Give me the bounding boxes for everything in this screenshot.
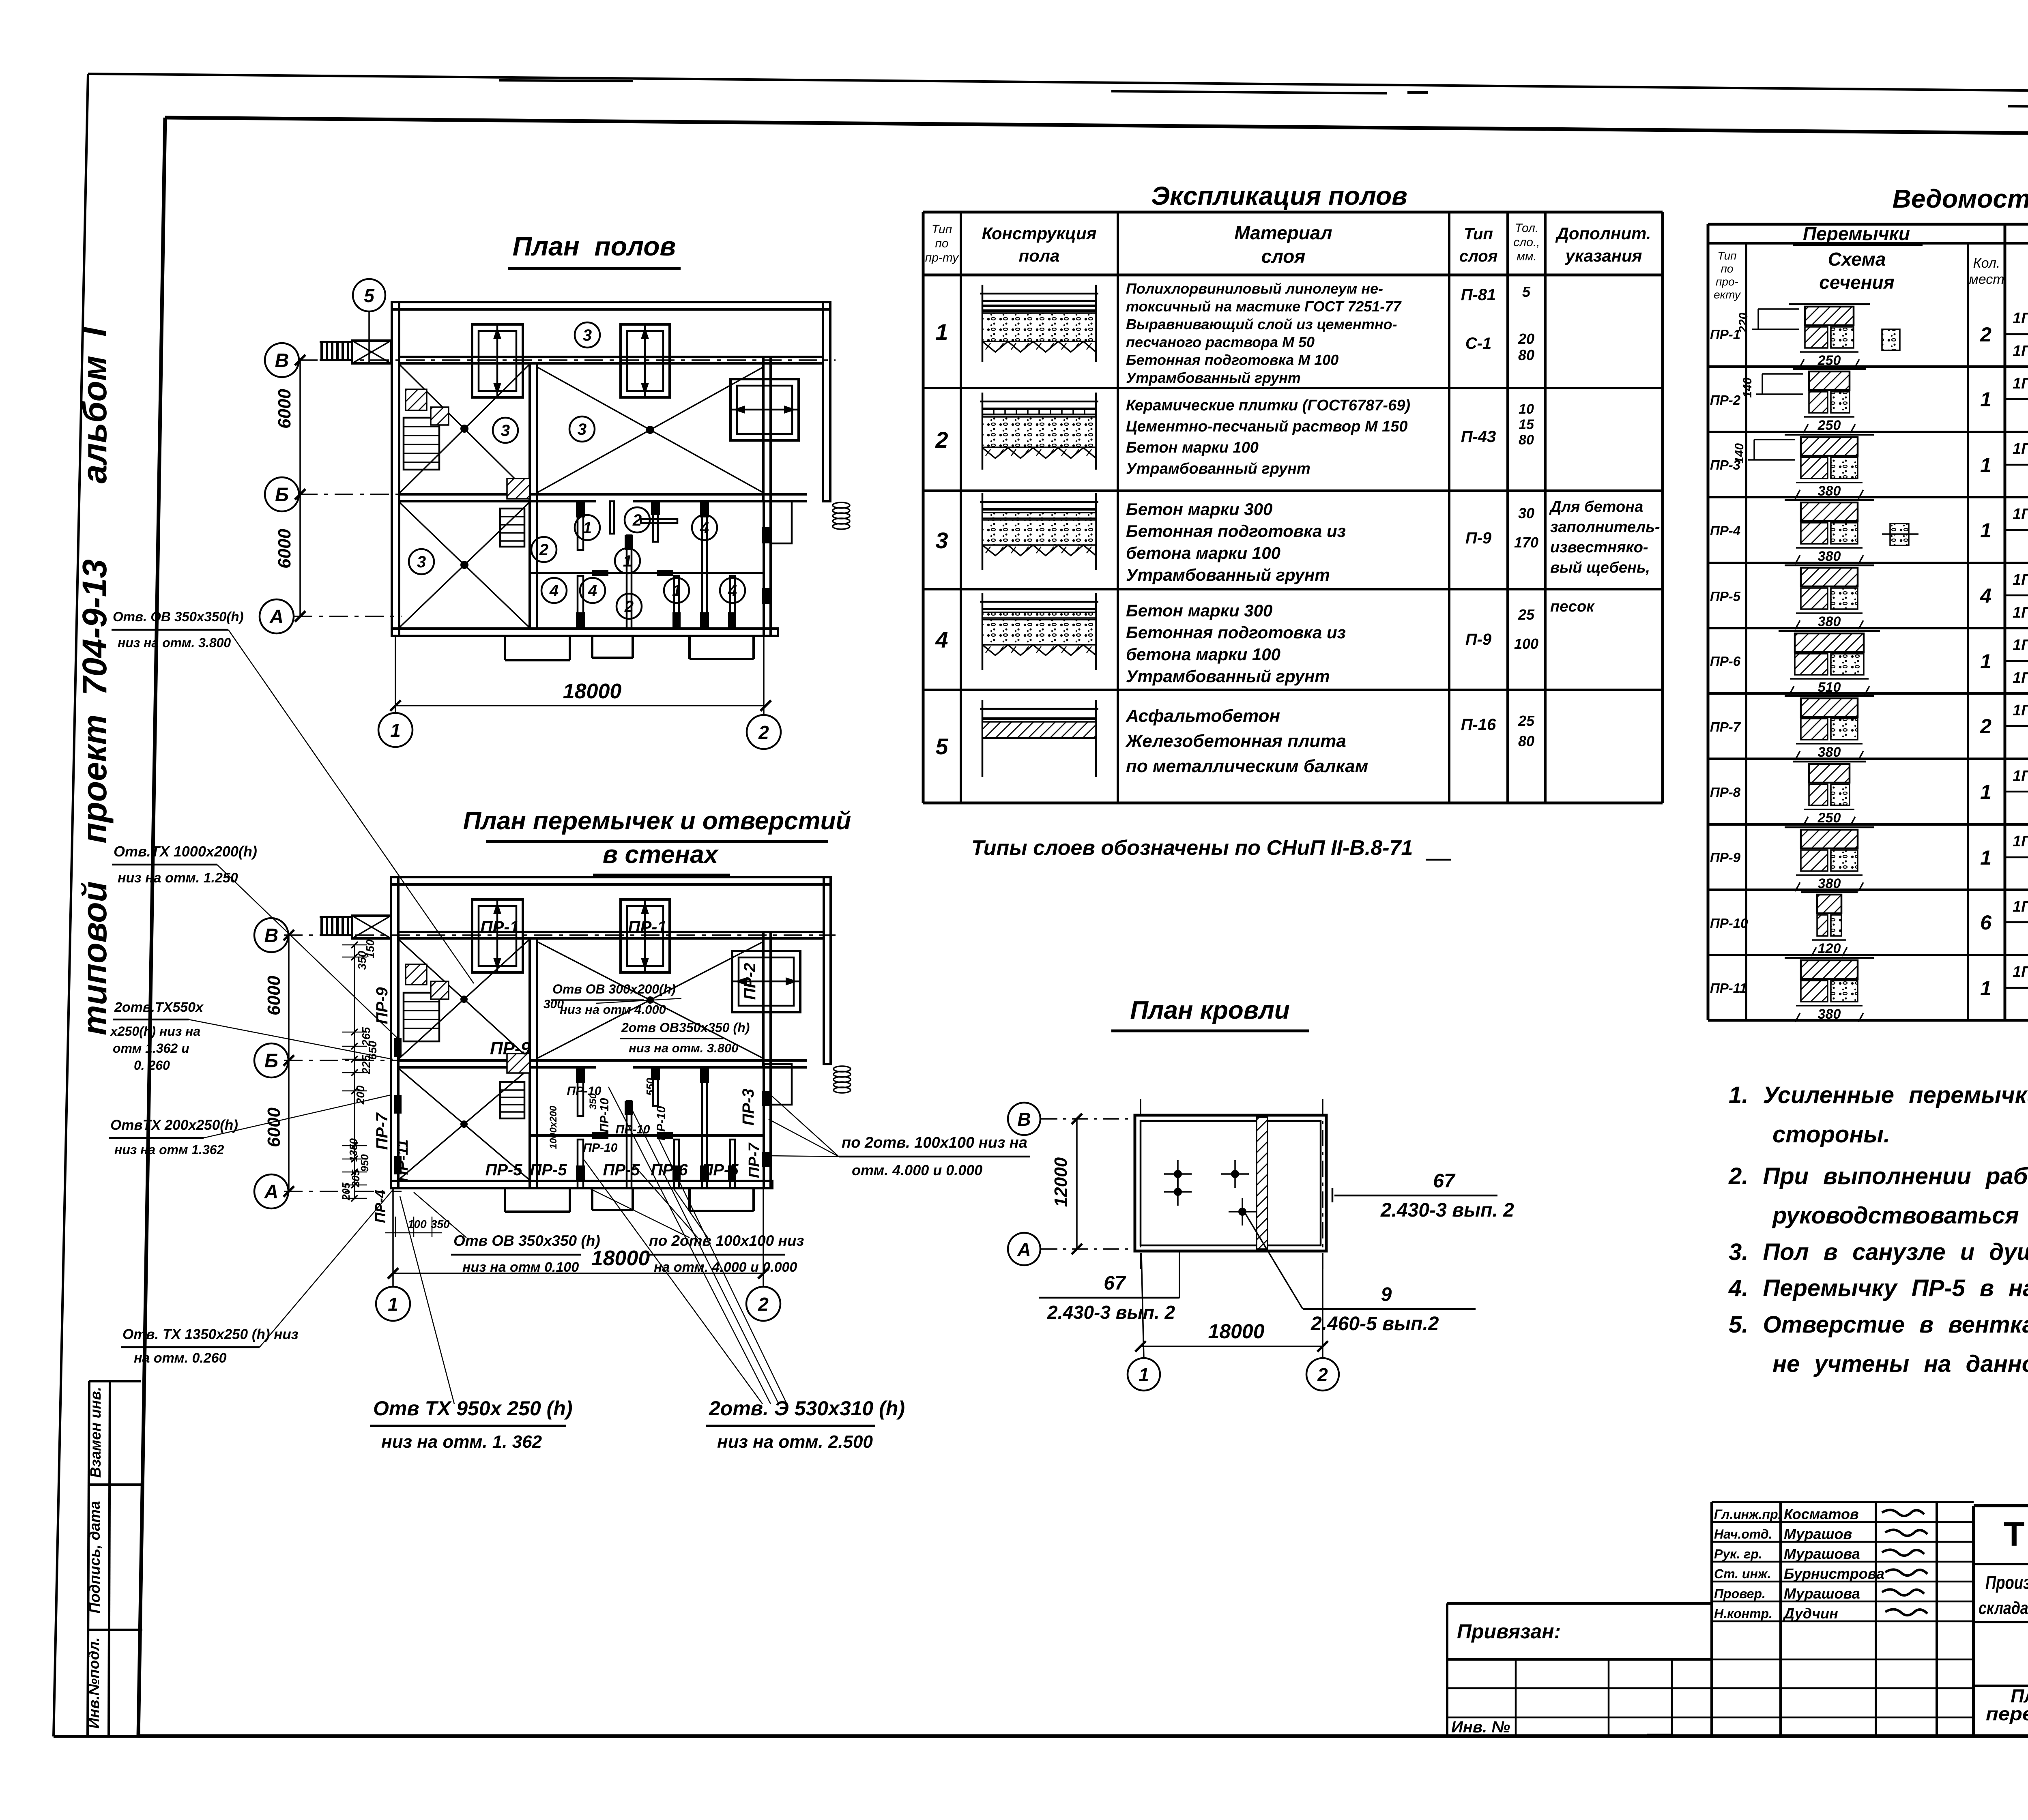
leader from ОВ300 to point bbox=[596, 998, 681, 1003]
svg-text:пр-ту: пр-ту bbox=[925, 251, 960, 264]
svg-text:Рук. гр.: Рук. гр. bbox=[1714, 1547, 1762, 1561]
svg-text:ПР-8: ПР-8 bbox=[1710, 785, 1741, 800]
svg-text:бетона марки 100: бетона марки 100 bbox=[1126, 543, 1280, 562]
svg-text:250: 250 bbox=[1817, 353, 1841, 368]
svg-text:67: 67 bbox=[1104, 1273, 1126, 1294]
lintel schema drawing ПР-8 bbox=[1793, 761, 1866, 763]
svg-text:екту: екту bbox=[1714, 288, 1741, 301]
svg-text:указания: указания bbox=[1564, 246, 1642, 265]
svg-text:Бетон марки 300: Бетон марки 300 bbox=[1126, 500, 1272, 519]
svg-text:ПР-4: ПР-4 bbox=[372, 1190, 389, 1223]
lintel schema drawing ПР-4 bbox=[1785, 499, 1874, 501]
svg-text:Отв.ТХ 1000х200(h): Отв.ТХ 1000х200(h) bbox=[114, 843, 257, 860]
svg-text:известняко-: известняко- bbox=[1550, 539, 1648, 556]
svg-text:низ на отм. 1. 362: низ на отм. 1. 362 bbox=[381, 1432, 542, 1452]
svg-text:380: 380 bbox=[1818, 876, 1841, 891]
svg-text:ПР-2: ПР-2 bbox=[741, 963, 759, 1000]
svg-text:Керамические плитки (ГОСТ6787-: Керамические плитки (ГОСТ6787-69) bbox=[1126, 397, 1410, 414]
title block main frame bbox=[1974, 1504, 2028, 1507]
svg-text:380: 380 bbox=[1818, 549, 1841, 564]
svg-text:1: 1 bbox=[935, 319, 948, 345]
floor construction sketch row bbox=[980, 601, 1098, 603]
svg-text:2: 2 bbox=[935, 427, 948, 453]
svg-text:18000: 18000 bbox=[1208, 1320, 1264, 1343]
svg-text:А: А bbox=[1017, 1239, 1031, 1260]
leaders from по 2отв bottom bbox=[589, 1188, 690, 1238]
lintel vertical dimension 6000 6000 bbox=[288, 935, 290, 1191]
svg-text:Тип: Тип bbox=[1464, 225, 1493, 243]
lintel plan diagonals BL bbox=[398, 1068, 530, 1180]
svg-text:1: 1 bbox=[1980, 846, 1991, 869]
svg-text:C-1: C-1 bbox=[1465, 335, 1491, 352]
leader from ТХ1000 bbox=[217, 865, 397, 1038]
svg-text:4: 4 bbox=[588, 582, 597, 600]
svg-text:5: 5 bbox=[364, 285, 375, 306]
lintel wall on axis В bbox=[398, 932, 824, 938]
axis circle А bbox=[260, 599, 294, 633]
svg-text:Кол.: Кол. bbox=[1973, 255, 2000, 271]
svg-text:Н.контр.: Н.контр. bbox=[1714, 1606, 1772, 1621]
svg-text:низ на отм 1.362: низ на отм 1.362 bbox=[114, 1142, 224, 1157]
svg-text:План кровли: План кровли bbox=[1130, 996, 1289, 1024]
outer sheet border bbox=[88, 74, 2028, 94]
svg-text:18000: 18000 bbox=[563, 680, 622, 703]
axis circle 5 bbox=[353, 279, 385, 311]
svg-text:1: 1 bbox=[1980, 519, 1991, 542]
lintel axis circle А bbox=[254, 1174, 288, 1208]
svg-text:ПР-5: ПР-5 bbox=[1710, 589, 1741, 604]
lintel schema drawing ПР-9 bbox=[1785, 826, 1874, 828]
svg-text:Тип: Тип bbox=[1717, 249, 1736, 262]
svg-text:Бетон марки 100: Бетон марки 100 bbox=[1126, 439, 1259, 456]
svg-text:Мурашов: Мурашов bbox=[1784, 1526, 1852, 1542]
leader to lintel plan from ОВ 350 bbox=[228, 630, 474, 983]
svg-text:Тип: Тип bbox=[932, 223, 952, 236]
svg-text:220: 220 bbox=[1737, 313, 1750, 333]
svg-text:Бетонная подготовка из: Бетонная подготовка из bbox=[1126, 623, 1346, 642]
lintel hatch icon 2 bbox=[431, 981, 449, 999]
svg-text:типовой проект 704-9-13: типовой проект 704-9-13 альбом I bbox=[75, 326, 114, 1035]
svg-text:ПР-9: ПР-9 bbox=[1710, 850, 1741, 865]
svg-text:1: 1 bbox=[1980, 388, 1991, 411]
svg-text:1: 1 bbox=[1980, 650, 1991, 673]
svg-text:1000x200: 1000x200 bbox=[548, 1105, 559, 1149]
svg-text:4. Перемычку ПР-5 в насосной: 4. Перемычку ПР-5 в насосной сделать с ч… bbox=[1728, 1275, 2028, 1301]
porch 2 below plan bbox=[591, 636, 593, 658]
svg-text:Отв ОВ 300х200(h): Отв ОВ 300х200(h) bbox=[552, 982, 676, 996]
svg-text:ПР-2: ПР-2 bbox=[1710, 393, 1741, 408]
svg-text:Дудчин: Дудчин bbox=[1783, 1605, 1838, 1622]
lintel axis circle В bbox=[254, 918, 288, 952]
vent unit 2 on top wall bbox=[621, 324, 670, 397]
lintel plan outer walls bbox=[391, 877, 831, 884]
hatched square icon 2 bbox=[431, 407, 449, 425]
svg-text:1: 1 bbox=[672, 582, 681, 600]
leader from 2отв ТХ550 bbox=[189, 1019, 393, 1059]
svg-text:В: В bbox=[1017, 1109, 1031, 1130]
lintel axis circle Б bbox=[254, 1043, 288, 1077]
svg-text:ТП: ТП bbox=[2004, 1515, 2028, 1553]
svg-text:отм 1.362 и: отм 1.362 и bbox=[113, 1041, 189, 1056]
svg-text:Железобетонная плита: Железобетонная плита bbox=[1125, 731, 1346, 751]
lintel schema drawing ПР-6 bbox=[1779, 630, 1880, 632]
floor construction sketch row bbox=[980, 293, 1098, 295]
roof leader bottom-left bbox=[1179, 1251, 1180, 1298]
svg-text:4: 4 bbox=[1980, 584, 1991, 607]
svg-text:ПР-9: ПР-9 bbox=[490, 1039, 531, 1058]
floor plan outer walls bbox=[392, 302, 830, 309]
roof axis line В bbox=[1041, 1118, 1136, 1120]
axis circle Б bbox=[265, 477, 299, 511]
svg-text:25: 25 bbox=[1518, 606, 1535, 623]
svg-text:4: 4 bbox=[700, 519, 709, 537]
leaders from 2отв Э bbox=[608, 1087, 771, 1404]
bracket 100 350 under plan bbox=[395, 1217, 396, 1237]
svg-text:1ПР8-27.12.224: 1ПР8-27.12.224 bbox=[2013, 343, 2028, 360]
horizontal dimension 18000 floor plan bbox=[395, 705, 766, 706]
svg-text:Материал: Материал bbox=[1234, 222, 1332, 243]
crossed box at axis 5 bbox=[352, 341, 391, 363]
svg-text:5: 5 bbox=[935, 734, 948, 759]
svg-text:1ПР8-20.12.224: 1ПР8-20.12.224 bbox=[2013, 670, 2028, 687]
svg-text:сечения: сечения bbox=[1819, 272, 1894, 293]
svg-text:по: по bbox=[1721, 262, 1734, 275]
dashed marks near bottom bbox=[1476, 1735, 1509, 1737]
lintel interior vertical wall bbox=[530, 938, 537, 1188]
axis circle В bbox=[265, 343, 299, 377]
svg-text:В: В bbox=[275, 350, 289, 371]
lintel horizontal dimension 18000 bbox=[393, 1273, 763, 1274]
svg-text:6000: 6000 bbox=[275, 389, 294, 429]
diagonal cross room 3 top-right bbox=[537, 367, 763, 493]
lintel schema side dim ПР-2 bbox=[1762, 373, 1803, 375]
svg-text:отм. 4.000 и 0.000: отм. 4.000 и 0.000 bbox=[852, 1162, 982, 1178]
svg-text:4: 4 bbox=[549, 582, 559, 600]
svg-text:3. Пол в санузле и душев: 3. Пол в санузле и душевой сделать на 2с… bbox=[1729, 1239, 2028, 1265]
lintel plan axis line Б bbox=[284, 1060, 402, 1061]
svg-text:1ПР3-19.12.14: 1ПР3-19.12.14 bbox=[2013, 768, 2028, 785]
svg-text:Гл.инж.пр.: Гл.инж.пр. bbox=[1714, 1507, 1782, 1522]
lintel schedule outer grid bbox=[1708, 223, 2028, 226]
right side protrusion below Б bbox=[771, 501, 792, 543]
svg-text:5: 5 bbox=[1522, 283, 1531, 300]
svg-text:6000: 6000 bbox=[264, 1107, 284, 1147]
svg-text:2отв ОВ350х350 (h): 2отв ОВ350х350 (h) bbox=[621, 1020, 750, 1035]
svg-text:пола: пола bbox=[1019, 246, 1060, 265]
lintel hatch icon 3 bbox=[507, 1054, 530, 1073]
lintel schedule sub-row lines bbox=[2005, 333, 2028, 335]
svg-text:вый щебень,: вый щебень, bbox=[1550, 559, 1650, 576]
svg-text:380: 380 bbox=[1818, 745, 1841, 760]
lintel schema drawing ПР-11 bbox=[1785, 957, 1874, 959]
svg-text:2: 2 bbox=[632, 511, 642, 529]
svg-text:6: 6 bbox=[1980, 911, 1992, 934]
lintel barrel icon bbox=[834, 1066, 851, 1072]
signature table grid bbox=[1712, 1501, 1974, 1503]
svg-text:бетона марки 100: бетона марки 100 bbox=[1126, 645, 1280, 664]
svg-text:Бетон марки 300: Бетон марки 300 bbox=[1126, 601, 1272, 620]
svg-text:слоя: слоя bbox=[1261, 246, 1306, 267]
svg-text:ПР-10: ПР-10 bbox=[598, 1098, 611, 1132]
svg-text:2отв.ТХ550х: 2отв.ТХ550х bbox=[114, 1000, 204, 1015]
svg-text:в стенах: в стенах bbox=[603, 841, 719, 869]
roof axis circle А bbox=[1008, 1233, 1040, 1265]
svg-text:20: 20 bbox=[1518, 331, 1534, 347]
svg-text:Утрамбованный грунт: Утрамбованный грунт bbox=[1126, 667, 1330, 686]
svg-text:сло.,: сло., bbox=[1513, 236, 1540, 249]
svg-text:ПР-5: ПР-5 bbox=[485, 1161, 522, 1179]
svg-text:250: 250 bbox=[1817, 418, 1841, 433]
svg-text:Отв. ОВ 350х350(h): Отв. ОВ 350х350(h) bbox=[113, 609, 244, 624]
wall on axis Б bbox=[399, 493, 807, 496]
svg-text:ПР-10: ПР-10 bbox=[583, 1141, 618, 1155]
roof hatched strip bbox=[1257, 1117, 1267, 1249]
lintel plan axis line В bbox=[284, 934, 836, 936]
svg-text:2: 2 bbox=[624, 598, 634, 616]
vent chamber wall right section bbox=[763, 357, 771, 501]
lintel schedule row lines bbox=[1708, 365, 2028, 368]
svg-text:Нач.отд.: Нач.отд. bbox=[1714, 1527, 1772, 1541]
svg-text:3: 3 bbox=[501, 422, 510, 440]
svg-text:Асфальтобетон: Асфальтобетон bbox=[1126, 706, 1280, 726]
room 2 closet walls bbox=[610, 501, 614, 534]
roof axis dashdot vertical 1 bbox=[1140, 1099, 1141, 1269]
leader from 950x250 bbox=[400, 1196, 454, 1404]
svg-text:А: А bbox=[264, 1181, 279, 1203]
lintel stair symbol left bbox=[404, 993, 439, 1041]
lintel vent unit 2 ПР-1 bbox=[621, 899, 670, 972]
svg-text:2: 2 bbox=[758, 722, 769, 743]
lintel left edge dimension tick chain bbox=[342, 944, 367, 946]
svg-text:6000: 6000 bbox=[275, 529, 294, 569]
svg-text:Дополнит.: Дополнит. bbox=[1555, 224, 1651, 243]
svg-text:П-43: П-43 bbox=[1461, 428, 1496, 446]
svg-text:ПР-10: ПР-10 bbox=[1710, 916, 1748, 931]
roof axis dashdot vertical 2 bbox=[1322, 1099, 1323, 1269]
svg-text:низ на отм 0.100: низ на отм 0.100 bbox=[462, 1260, 579, 1275]
stray scan dashes above frame bbox=[499, 80, 633, 81]
svg-text:ПР-5: ПР-5 bbox=[603, 1161, 640, 1179]
svg-text:1ПР3-19.12.14: 1ПР3-19.12.14 bbox=[2013, 702, 2028, 719]
lintel crossed box axis 5 bbox=[352, 916, 391, 938]
svg-text:140: 140 bbox=[1733, 443, 1746, 464]
svg-text:ПР-11: ПР-11 bbox=[1710, 981, 1747, 996]
svg-text:1: 1 bbox=[1139, 1364, 1149, 1385]
svg-text:П-81: П-81 bbox=[1461, 286, 1496, 304]
svg-text:5. Отверстие в венткамере и: 5. Отверстие в венткамере и перемычка дл… bbox=[1729, 1311, 2028, 1338]
svg-text:Тол.: Тол. bbox=[1515, 221, 1539, 235]
svg-text:510: 510 bbox=[1818, 680, 1841, 695]
svg-text:Перемычки: Перемычки bbox=[1803, 223, 1910, 244]
svg-text:В: В bbox=[264, 925, 279, 946]
svg-text:низ на отм. 3.800: низ на отм. 3.800 bbox=[629, 1041, 739, 1055]
black door jambs floor plan bbox=[576, 501, 585, 517]
lintel schedule header row 2 line bbox=[1708, 242, 2005, 245]
svg-text:25: 25 bbox=[1518, 713, 1535, 729]
svg-text:1ПР4-25.12.14: 1ПР4-25.12.14 bbox=[2013, 375, 2028, 392]
svg-text:Производственно-бытовой корп: Производственно-бытовой корпус bbox=[1985, 1572, 2028, 1593]
svg-text:380: 380 bbox=[1818, 483, 1841, 499]
lintel axis circle 1 bbox=[376, 1287, 410, 1321]
svg-text:100: 100 bbox=[1514, 635, 1538, 652]
svg-text:0. 260: 0. 260 bbox=[134, 1058, 170, 1073]
svg-text:1ПР4-25.12.14: 1ПР4-25.12.14 bbox=[2013, 310, 2028, 327]
svg-text:по 2отв 100х100 низ: по 2отв 100х100 низ bbox=[649, 1232, 804, 1249]
svg-text:склада нефтепродуктов емк. 1: склада нефтепродуктов емк. 1 тыс. куб. м… bbox=[1979, 1598, 2028, 1618]
svg-text:П-16: П-16 bbox=[1461, 716, 1496, 734]
svg-text:80: 80 bbox=[1518, 733, 1534, 749]
svg-text:Взамен инв.: Взамен инв. bbox=[87, 1387, 104, 1478]
signatures squiggles bbox=[1882, 1510, 1924, 1516]
svg-text:слоя: слоя bbox=[1459, 247, 1498, 265]
lintel plan diagonals TR bbox=[537, 942, 763, 1058]
svg-text:1: 1 bbox=[390, 720, 401, 741]
svg-text:низ на отм. 1.250: низ на отм. 1.250 bbox=[118, 870, 238, 886]
svg-text:1ПР1-12.12.14: 1ПР1-12.12.14 bbox=[2013, 571, 2028, 588]
svg-text:Привязан:: Привязан: bbox=[1457, 1620, 1561, 1643]
svg-text:1ПР1-12.12.6: 1ПР1-12.12.6 bbox=[2013, 506, 2028, 523]
roof cross marks bbox=[1164, 1173, 1192, 1175]
vent unit 1 on top wall bbox=[472, 324, 523, 397]
svg-text:Мурашова: Мурашова bbox=[1784, 1545, 1860, 1562]
svg-text:350: 350 bbox=[356, 951, 368, 970]
svg-text:550: 550 bbox=[644, 1078, 656, 1096]
svg-text:170: 170 bbox=[1514, 534, 1538, 551]
floor construction sketch row bbox=[980, 401, 1098, 403]
lintel schema drawing ПР-1 bbox=[1789, 303, 1870, 305]
svg-text:2.430-3 вып. 2: 2.430-3 вып. 2 bbox=[1380, 1200, 1514, 1221]
lintel plan axis line А bbox=[284, 1191, 402, 1192]
svg-text:Ведомость перемычек: Ведомость перемычек bbox=[1893, 184, 2028, 213]
svg-text:2: 2 bbox=[758, 1294, 769, 1315]
svg-text:1ПР38-15.12.224: 1ПР38-15.12.224 bbox=[2013, 833, 2028, 850]
svg-text:Б: Б bbox=[264, 1050, 278, 1072]
svg-text:Отв ОВ 350х350 (h): Отв ОВ 350х350 (h) bbox=[453, 1232, 600, 1249]
lintel small room partitions bbox=[578, 1067, 583, 1116]
svg-text:ПР-9: ПР-9 bbox=[373, 987, 391, 1024]
lintel axis circle 2 bbox=[746, 1287, 780, 1321]
svg-text:140: 140 bbox=[1741, 378, 1754, 398]
svg-text:Утрамбованный грунт: Утрамбованный грунт bbox=[1126, 565, 1330, 584]
wall on axis В bbox=[399, 357, 823, 363]
svg-text:10: 10 bbox=[1519, 401, 1534, 417]
floor explication table grid bbox=[923, 211, 1663, 214]
svg-text:ПР-4: ПР-4 bbox=[1710, 523, 1740, 538]
svg-text:380: 380 bbox=[1818, 1007, 1841, 1022]
svg-text:2.460-5 вып.2: 2.460-5 вып.2 bbox=[1310, 1313, 1439, 1335]
lintel right protrusion below Б bbox=[771, 1064, 792, 1105]
svg-text:30: 30 bbox=[1518, 505, 1534, 522]
svg-text:Полихлорвиниловый линолеум н: Полихлорвиниловый линолеум не- bbox=[1126, 280, 1383, 297]
floor plan axis line Б bbox=[299, 494, 402, 495]
svg-text:Ст. инж.: Ст. инж. bbox=[1714, 1567, 1771, 1581]
svg-text:П-9: П-9 bbox=[1465, 631, 1492, 648]
svg-text:Отв ТХ 950х 250 (h): Отв ТХ 950х 250 (h) bbox=[373, 1397, 573, 1420]
svg-text:Б: Б bbox=[275, 484, 289, 506]
svg-text:Бетонная подготовка из: Бетонная подготовка из bbox=[1126, 522, 1346, 541]
svg-text:про-: про- bbox=[1716, 275, 1738, 288]
svg-text:3: 3 bbox=[935, 528, 948, 553]
svg-text:низ на отм 4.000: низ на отм 4.000 bbox=[560, 1002, 666, 1017]
svg-text:2.430-3 вып. 2: 2.430-3 вып. 2 bbox=[1047, 1302, 1175, 1323]
svg-text:низ на отм. 3.800: низ на отм. 3.800 bbox=[118, 635, 231, 650]
svg-text:225: 225 bbox=[360, 1055, 372, 1074]
svg-text:1: 1 bbox=[388, 1294, 398, 1315]
svg-text:1: 1 bbox=[583, 519, 592, 537]
lintel schema drawing ПР-5 bbox=[1785, 564, 1874, 567]
floor construction sketch row bbox=[980, 708, 1098, 710]
roof axis line А bbox=[1041, 1248, 1136, 1250]
svg-text:по: по bbox=[935, 237, 948, 250]
svg-text:ПР-1: ПР-1 bbox=[1710, 327, 1740, 342]
svg-text:Бетонная подготовка М 10: Бетонная подготовка М 100 bbox=[1126, 352, 1338, 368]
lintel schema side dim ПР-3 bbox=[1754, 439, 1795, 440]
leader from ТХ200 bbox=[204, 1095, 391, 1138]
svg-text:заполнитель-: заполнитель- bbox=[1550, 519, 1660, 536]
svg-text:Схема: Схема bbox=[1828, 249, 1886, 270]
vent unit on right wall bbox=[730, 379, 799, 440]
interior vertical wall x~1315 bbox=[530, 363, 537, 629]
svg-text:песок: песок bbox=[1550, 598, 1595, 615]
svg-text:ПР-1: ПР-1 bbox=[480, 917, 519, 936]
lintel schema drawing ПР-2 bbox=[1793, 368, 1866, 370]
svg-text:4: 4 bbox=[728, 582, 737, 600]
lintel vent unit right ПР-2 bbox=[732, 951, 800, 1012]
svg-text:ПР-5: ПР-5 bbox=[530, 1161, 567, 1179]
svg-text:100: 100 bbox=[408, 1218, 427, 1230]
roof axis circle 2 bbox=[1306, 1358, 1339, 1391]
hatched square icon 3 bbox=[507, 479, 530, 499]
leader from ТХ1350 bbox=[260, 1188, 394, 1347]
lintel wall on axis Б bbox=[398, 1059, 807, 1062]
svg-text:по 2отв. 100х100 низ на: по 2отв. 100х100 низ на bbox=[842, 1134, 1027, 1151]
notes text block bbox=[1728, 1082, 2028, 1377]
svg-text:План перемычек и отверстий: План перемычек и отверстий bbox=[463, 807, 851, 835]
svg-text:950: 950 bbox=[359, 1154, 371, 1172]
lintel plan diagonals TL bbox=[398, 939, 530, 1059]
svg-text:1: 1 bbox=[623, 552, 632, 570]
svg-text:9: 9 bbox=[1381, 1284, 1392, 1305]
svg-text:Типы слоев обозначены: Типы слоев обозначены по СНиП II-В.8-71 bbox=[971, 836, 1413, 860]
roof plan rectangle bbox=[1135, 1115, 1326, 1251]
porch 3 below plan bbox=[688, 636, 691, 659]
floor plan axis line В bbox=[299, 359, 836, 361]
extra block ПР-4 bbox=[1890, 524, 1909, 545]
lintel schema side dim ПР-1 bbox=[1758, 308, 1799, 310]
svg-text:План полов: План полов bbox=[513, 231, 676, 261]
roof leader from 9 bbox=[1245, 1213, 1303, 1309]
black door jambs lintel plan bbox=[576, 1067, 585, 1083]
svg-text:ПР-7: ПР-7 bbox=[1710, 719, 1741, 734]
svg-text:Утрамбованный грунт: Утрамбованный грунт bbox=[1126, 460, 1310, 477]
svg-text:Цементно-песчаный раствор М 15: Цементно-песчаный раствор М 150 bbox=[1126, 418, 1407, 435]
svg-text:1ПР2-15.12.14: 1ПР2-15.12.14 bbox=[2013, 964, 2028, 981]
svg-text:Экспликация полов: Экспликация полов bbox=[1151, 181, 1407, 210]
lintel porch 1 bbox=[504, 1188, 506, 1212]
floor plan axis line А bbox=[294, 616, 402, 617]
svg-text:67: 67 bbox=[1433, 1170, 1456, 1192]
svg-text:1. Усиленные перемычки ук: 1. Усиленные перемычки укладывать с внут… bbox=[1729, 1082, 2028, 1108]
svg-text:Утрамбованный грунт: Утрамбованный грунт bbox=[1126, 369, 1301, 386]
svg-text:2отв. Э 530х310 (h): 2отв. Э 530х310 (h) bbox=[709, 1397, 905, 1420]
svg-text:2: 2 bbox=[1980, 715, 1991, 738]
svg-text:на отм. 4.000 и 0.000: на отм. 4.000 и 0.000 bbox=[654, 1260, 797, 1275]
roof vertical dimension 12000 bbox=[1076, 1119, 1078, 1249]
svg-text:12000: 12000 bbox=[1051, 1157, 1071, 1207]
svg-text:80: 80 bbox=[1518, 347, 1534, 363]
main drawing frame bbox=[165, 118, 2028, 137]
svg-text:Отв. ТХ 1350х250 (h) низ: Отв. ТХ 1350х250 (h) низ bbox=[122, 1326, 299, 1342]
